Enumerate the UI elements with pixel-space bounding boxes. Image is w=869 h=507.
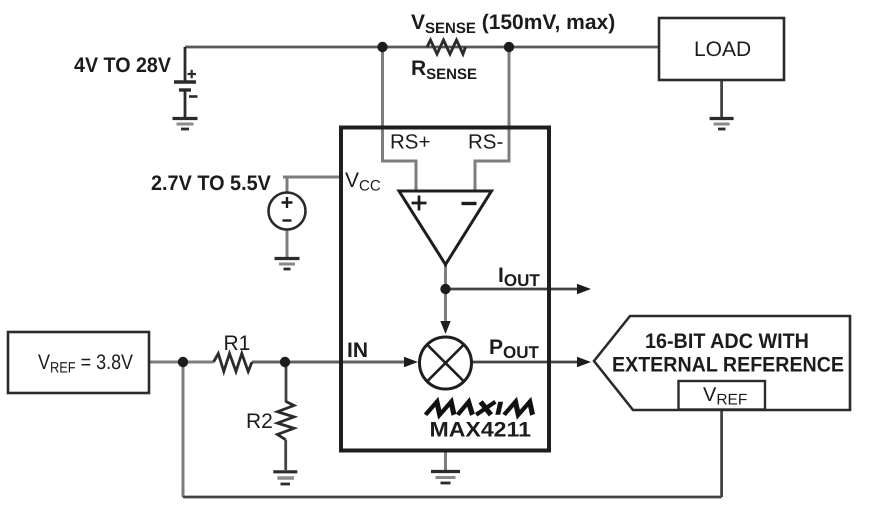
svg-text:2.7V TO 5.5V: 2.7V TO 5.5V bbox=[151, 172, 271, 195]
svg-text:IN: IN bbox=[347, 339, 368, 362]
svg-text:MAX4211: MAX4211 bbox=[430, 419, 532, 442]
svg-text:RS-: RS- bbox=[468, 131, 503, 154]
svg-text:RS+: RS+ bbox=[390, 131, 430, 154]
svg-text:R2: R2 bbox=[246, 410, 273, 433]
svg-text:R1: R1 bbox=[224, 332, 251, 355]
svg-text:16-BIT ADC WITH: 16-BIT ADC WITH bbox=[645, 330, 809, 353]
svg-text:LOAD: LOAD bbox=[694, 38, 751, 61]
svg-text:EXTERNAL REFERENCE: EXTERNAL REFERENCE bbox=[612, 354, 844, 377]
svg-text:4V TO 28V: 4V TO 28V bbox=[74, 54, 171, 77]
